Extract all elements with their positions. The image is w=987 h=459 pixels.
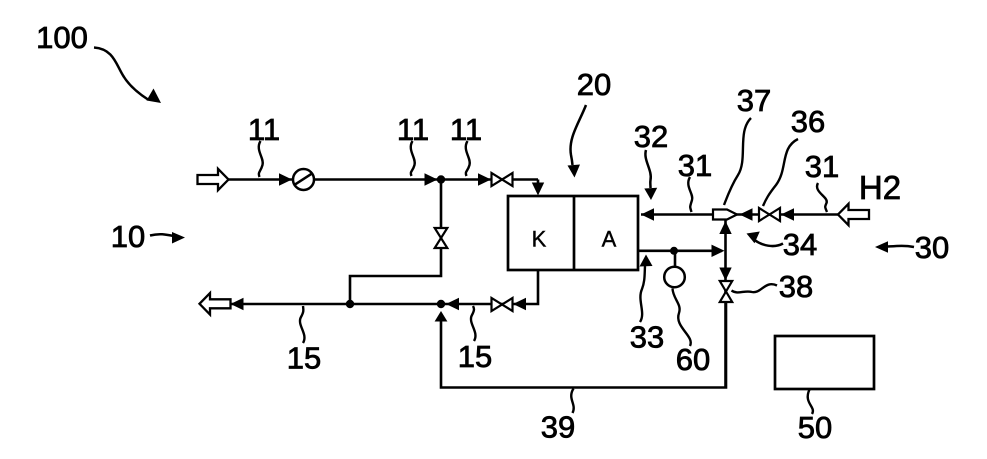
svg-text:33: 33 [630, 320, 664, 355]
svg-text:39: 39 [541, 410, 575, 445]
svg-text:32: 32 [634, 119, 668, 154]
svg-text:31: 31 [678, 148, 712, 183]
svg-text:100: 100 [36, 20, 88, 55]
svg-text:10: 10 [111, 219, 145, 254]
svg-text:38: 38 [779, 269, 813, 304]
svg-text:H2: H2 [859, 169, 901, 206]
svg-text:60: 60 [676, 342, 710, 377]
svg-text:20: 20 [577, 67, 611, 102]
svg-text:A: A [602, 227, 617, 252]
svg-text:11: 11 [248, 112, 280, 147]
svg-text:36: 36 [791, 104, 825, 139]
svg-text:15: 15 [287, 341, 321, 376]
svg-text:15: 15 [458, 339, 492, 374]
svg-text:31: 31 [805, 149, 839, 184]
svg-text:30: 30 [915, 230, 949, 265]
svg-text:K: K [532, 227, 547, 252]
svg-text:11: 11 [397, 112, 429, 147]
svg-text:34: 34 [783, 227, 817, 262]
svg-text:11: 11 [450, 112, 482, 147]
svg-text:37: 37 [737, 83, 771, 118]
svg-text:50: 50 [798, 410, 832, 445]
